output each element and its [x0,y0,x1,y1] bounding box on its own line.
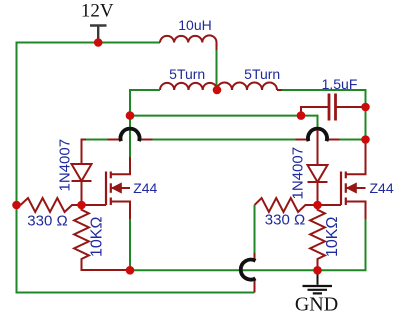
junction node right drain [361,135,370,144]
inductor L1 10uH [160,35,217,42]
diode D2 1N4007 [308,130,328,205]
wire left coil end to left drain [130,90,160,157]
wire bottom +12V rail [16,292,255,294]
junction node gate2 [313,201,322,210]
wire cap-left node to right diode top [301,116,318,131]
resistor R2 10K left [74,205,130,270]
wire top +12V rail [17,42,161,44]
mosfet Q2 Z44 [318,140,366,220]
resistor R3 330 right [255,198,318,212]
svg-text:1N4007: 1N4007 [57,139,74,192]
svg-text:Z44: Z44 [370,180,394,196]
terminal 12V [90,26,107,42]
transformer winding T1b 5Turn [217,83,277,90]
wire +12V feed to R3 [254,205,256,293]
wire left +12V rail [16,42,18,294]
svg-text:5Turn: 5Turn [244,66,280,82]
junction node left drain [126,111,135,120]
wire feedback gate1 to drain2 [86,139,366,141]
hop over left drain wire [121,129,140,142]
diode D1 1N4007 [72,140,92,206]
junction node center tap [213,86,222,95]
svg-text:5Turn: 5Turn [169,66,205,82]
resistor R4 10K right [310,205,325,271]
capacitor C1 1.5uF [301,94,366,121]
junction node gate1 [77,201,86,210]
svg-text:1.5uF: 1.5uF [322,76,358,92]
junction node cap right [361,103,370,112]
hop over gnd run [241,260,256,280]
junction node 12V [94,38,103,47]
junction node gnd [313,266,322,275]
resistor R1 330 [17,198,82,212]
ground symbol [303,271,333,294]
mosfet Q1 Z44 [82,157,131,219]
wire sources / gnd run [130,269,318,271]
svg-text:10uH: 10uH [178,17,211,33]
svg-text:10KΩ: 10KΩ [89,217,106,257]
svg-text:330 Ω: 330 Ω [27,213,67,230]
wire inductor to center tap [216,43,218,91]
svg-text:330 Ω: 330 Ω [265,212,305,229]
hop over right diode wire [308,129,327,142]
junction node source1 [126,266,135,275]
svg-text:GND: GND [295,294,338,316]
junction node cap left [297,111,306,120]
svg-text:12V: 12V [81,1,114,22]
wire left drain to cap-left node [130,115,301,117]
svg-text:10KΩ: 10KΩ [324,217,341,257]
transformer winding T1a 5Turn [160,83,217,90]
wire left source down [129,219,131,270]
junction node rail R1 [12,201,21,210]
svg-text:Z44: Z44 [133,180,157,196]
svg-text:1N4007: 1N4007 [290,147,307,200]
wire right source down [318,219,366,270]
wire right coil end to right rail [277,90,366,140]
